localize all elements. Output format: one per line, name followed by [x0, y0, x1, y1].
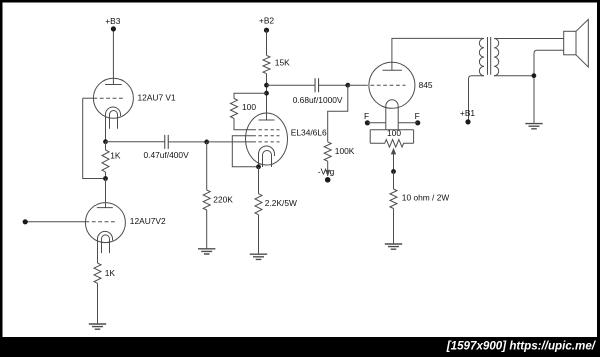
triode U4 845 envelope: [369, 62, 415, 108]
U1 cathode dome and lead: [106, 107, 121, 141]
U4 plate lead to transformer: [392, 38, 484, 70]
wire junction to V2 plate: [105, 179, 107, 208]
svg-text:F: F: [415, 111, 420, 121]
wire screen node to R5: [234, 93, 267, 98]
T1 secondary winding: [494, 39, 499, 76]
U1 heater: [110, 111, 118, 129]
svg-text:+B2: +B2: [259, 16, 274, 26]
node speaker/secondary junction: [532, 73, 537, 78]
wire R5 to g2 stub: [234, 118, 253, 129]
transformer T1 primary winding: [479, 39, 484, 76]
svg-text:2.2K/5W: 2.2K/5W: [265, 198, 297, 208]
svg-text:EL34/6L6: EL34/6L6: [291, 128, 327, 138]
U3 heater: [263, 151, 272, 167]
ground below R3: [198, 249, 215, 254]
wire T1 secondary bottom to junction: [494, 75, 534, 77]
U3 suppressor tie to cathode: [232, 136, 258, 167]
T1 core: [488, 37, 491, 75]
bias branch wire from 845 grid node: [328, 85, 348, 142]
resistor R7 100K: [324, 142, 331, 161]
svg-text:1K: 1K: [105, 268, 116, 278]
U3 plate: [259, 119, 275, 121]
svg-text:10 ohm / 2W: 10 ohm / 2W: [402, 192, 450, 202]
node -Vg terminal: [325, 177, 331, 183]
wire B3 feed to V1 plate: [112, 29, 114, 85]
ground below R2: [89, 324, 106, 329]
node V1 cathode junction: [103, 139, 108, 144]
svg-text:0.68uf/1000V: 0.68uf/1000V: [293, 95, 343, 105]
node screen junction: [264, 91, 269, 96]
resistor R2 1K (V2 cathode): [94, 263, 101, 283]
U3 cathode dome and lead: [259, 146, 275, 167]
svg-text:100: 100: [242, 102, 256, 112]
svg-text:845: 845: [419, 80, 433, 90]
node input terminal: [23, 219, 28, 224]
wire 845 grid node to grid: [348, 84, 364, 86]
U3 grids (dashed): [253, 129, 280, 131]
node 845 grid node: [345, 83, 350, 88]
wire R4 to plate node and EL34 plate: [266, 74, 268, 120]
triode U2 12AU7 V2 envelope: [85, 203, 125, 243]
wire plate node to cap C2: [267, 84, 315, 86]
resistor R3 220K: [206, 142, 208, 190]
-Vg arrowhead: [325, 170, 330, 177]
wire grid node to EL34 g1: [207, 141, 253, 143]
U2 heater: [102, 235, 110, 253]
coupling wire V1 cathode to cap C1: [106, 141, 165, 143]
wire C1 to grid node: [168, 141, 206, 143]
U2 grid (dashed): [85, 221, 116, 223]
svg-text:15K: 15K: [275, 58, 290, 68]
capacitor C1 0.47uf/400V: [165, 135, 169, 149]
resistor R8 10 ohm / 2W: [393, 172, 395, 190]
triode U1 12AU7 V1 envelope: [93, 78, 133, 118]
svg-text:F: F: [364, 111, 369, 121]
wire F right to filament: [398, 122, 418, 124]
svg-text:[1597x900] https://upic.me/: [1597x900] https://upic.me/: [446, 340, 597, 353]
node EL34 grid node: [204, 140, 209, 145]
ground below R6: [250, 254, 267, 259]
svg-text:1K: 1K: [110, 151, 121, 161]
capacitor C2 0.68uf/1000V: [315, 78, 319, 92]
node plate/cap junction: [264, 83, 269, 88]
hum pot VR1 box: [370, 130, 413, 144]
node U3 cathode junction: [256, 164, 261, 169]
wire T1 primary bottom to B1: [469, 76, 485, 122]
ground below R8: [385, 244, 402, 249]
node F left terminal: [365, 120, 370, 125]
resistor R1 1K (V1 cathode): [102, 150, 109, 172]
node F right terminal: [415, 120, 420, 125]
U1 plate: [105, 84, 122, 86]
wire T1 secondary top to speaker: [494, 38, 564, 40]
wire R2 to ground: [97, 283, 99, 324]
input wire: [25, 221, 85, 223]
wire speaker return: [534, 50, 564, 123]
speaker LS1: [564, 31, 576, 55]
U4 plate: [383, 69, 403, 71]
node wiper junction: [391, 169, 396, 174]
svg-text:-V: -V: [318, 167, 327, 177]
resistor R5 100 (screen): [231, 99, 238, 119]
U1 grid lead wire: [83, 97, 94, 99]
svg-text:g: g: [330, 167, 335, 177]
U4 filament: [386, 100, 398, 130]
wire R7 to -Vg: [327, 161, 329, 176]
svg-text:100: 100: [387, 128, 401, 138]
svg-text:0.47uf/400V: 0.47uf/400V: [144, 150, 190, 160]
node V2 plate junction: [103, 176, 108, 181]
wire F left to filament: [367, 122, 385, 124]
svg-text:12AU7 V1: 12AU7 V1: [138, 93, 177, 103]
svg-text:220K: 220K: [213, 194, 233, 204]
U2 cathode dome and lead: [98, 231, 113, 263]
feedback wire V1 grid to V2 plate node: [83, 98, 106, 178]
U2 plate: [97, 207, 113, 209]
resistor R4 15K: [263, 55, 270, 73]
pentode U3 EL34 envelope: [246, 113, 288, 165]
svg-text:12AU7V2: 12AU7V2: [130, 216, 166, 226]
wire B2 to R4: [266, 30, 268, 55]
VR1 wiper arrow: [393, 153, 395, 172]
U4 grid (dashed): [364, 84, 406, 86]
svg-text:+B1: +B1: [460, 108, 475, 118]
resistor R6 2.2K/5W: [258, 167, 260, 194]
hum pot VR1 100 element: [370, 140, 413, 148]
svg-text:100K: 100K: [335, 146, 355, 156]
wire C2 to 845 grid node: [319, 84, 348, 86]
ground speaker: [525, 124, 542, 129]
svg-text:+B3: +B3: [105, 16, 120, 26]
R1 leads: [105, 142, 107, 179]
U1 grid (dashed): [93, 97, 124, 99]
